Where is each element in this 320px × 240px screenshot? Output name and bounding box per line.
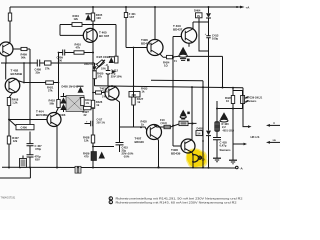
transistor T403b	[105, 86, 119, 100]
svg-text:1k: 1k	[141, 123, 144, 127]
node x30-y119.5	[29, 119, 31, 121]
wire T404 emitter	[56, 126, 58, 168]
column x116 with diode D403	[115, 25, 117, 57]
wire T406 collector	[154, 7, 156, 40]
svg-text:10: 10	[226, 99, 229, 103]
wire T407 emitter	[158, 139, 159, 168]
resistor R429 (dark)	[91, 152, 97, 161]
node y127-x141	[140, 126, 142, 128]
resistor R436	[179, 121, 188, 125]
node rail-x93	[92, 6, 94, 8]
column x133.5	[133, 48, 135, 128]
svg-text:27k: 27k	[45, 67, 50, 71]
svg-text:rt: rt	[273, 122, 275, 125]
svg-text:BC546B: BC546B	[11, 72, 23, 76]
wire H2 feedback line	[1, 62, 95, 64]
node x133.5-out	[133, 85, 135, 87]
resistor R409	[21, 47, 27, 50]
wire H3 line	[59, 52, 94, 54]
capacitor C407	[27, 144, 34, 146]
node out-x192	[191, 86, 193, 88]
thermal sensor 3	[180, 110, 187, 116]
node out-x233	[232, 87, 234, 89]
svg-text:1k: 1k	[137, 100, 140, 104]
node x217-y108.5	[216, 108, 218, 110]
collector line T407	[154, 123, 197, 127]
node x93-y146	[92, 146, 94, 148]
resistor R401	[8, 13, 11, 21]
node rail-end	[236, 6, 238, 8]
svg-text:R425 100kΩ: R425 100kΩ	[97, 56, 111, 59]
note 2	[109, 200, 112, 203]
node x93-y108	[92, 107, 94, 109]
resistor R410	[74, 51, 84, 54]
wire T403b base	[93, 92, 105, 94]
node out-x112	[111, 85, 113, 87]
diode D401	[86, 14, 92, 20]
diode D402	[94, 63, 96, 66]
wire T402 collector line y82.5	[18, 81, 59, 83]
note 1	[109, 197, 112, 200]
resistor R407	[7, 136, 10, 144]
transistor T408	[181, 139, 195, 153]
svg-text:27k: 27k	[48, 88, 53, 92]
resistor R418	[57, 100, 60, 108]
svg-text:Ruhestromeinstellung mit R143,: Ruhestromeinstellung mit R143, 60 mA bei…	[116, 200, 237, 204]
transistor T403	[181, 28, 196, 43]
thermal sensor 2	[220, 112, 228, 119]
wire D404 box lead	[199, 18, 209, 51]
node x9-y119.5	[8, 119, 10, 121]
node H2-x58.5	[58, 62, 60, 64]
column x217	[216, 101, 218, 122]
resistor R426a	[91, 100, 94, 108]
resistor R408	[7, 98, 10, 106]
wire left column	[9, 7, 11, 43]
diode D406 stack	[61, 93, 67, 112]
svg-text:470p: 470p	[35, 147, 41, 151]
bottom bus -A	[2, 166, 236, 169]
svg-text:470: 470	[84, 155, 89, 159]
diode D405 triangle	[78, 87, 84, 93]
highlighter mark (yellow)	[186, 148, 208, 168]
terminal -A	[236, 166, 239, 169]
speaker wire sw	[266, 141, 270, 144]
svg-text:100μ: 100μ	[212, 37, 218, 41]
diode D409 triangle	[99, 152, 106, 159]
node x173-y57.5	[172, 57, 174, 59]
capacitor C408	[37, 60, 39, 67]
capacitor C412	[106, 66, 110, 86]
node rail-x155	[154, 6, 156, 8]
wire T408 base	[173, 145, 181, 147]
wire T403b emitter	[116, 99, 120, 127]
svg-text:25V 1%: 25V 1%	[97, 122, 106, 125]
node H2-T401e	[5, 62, 7, 64]
node x233-y108.5	[232, 108, 234, 110]
svg-text:BC546B: BC546B	[36, 113, 48, 117]
node x192.5-y123.5	[192, 123, 194, 125]
resistor R421	[46, 81, 54, 84]
boxed label 230	[129, 92, 140, 98]
wire T402 base	[5, 63, 7, 80]
resistor R426b	[96, 91, 102, 94]
wire T408 collector	[191, 87, 193, 141]
column x173	[172, 37, 174, 147]
terminal +A arrow	[240, 6, 245, 9]
svg-text:100: 100	[58, 58, 63, 62]
svg-text:BD440: BD440	[135, 140, 145, 144]
svg-text:D406: D406	[59, 113, 66, 117]
svg-text:22: 22	[84, 113, 87, 117]
node x133.5-y47.5	[133, 47, 135, 49]
main output line	[95, 86, 244, 88]
wire base line T404	[9, 119, 47, 121]
fuse below bus	[75, 166, 81, 173]
svg-text:27k: 27k	[98, 75, 103, 79]
svg-text:Siemens: Siemens	[220, 148, 232, 152]
node bus dots	[8, 167, 10, 169]
svg-text:C406: C406	[21, 126, 28, 130]
svg-text:-10%: -10%	[123, 155, 130, 159]
svg-text:1k: 1k	[96, 103, 99, 107]
capacitor C418	[213, 132, 221, 159]
node H2-x30	[29, 62, 31, 64]
node out-x222.5	[222, 87, 224, 89]
svg-text:sw: sw	[273, 139, 276, 142]
fuse F401	[125, 7, 127, 48]
svg-text:1AT: 1AT	[129, 15, 134, 19]
boxed test label C406	[16, 125, 34, 130]
speaker out branch	[243, 88, 248, 127]
svg-text:2,2: 2,2	[222, 125, 226, 129]
svg-text:47k: 47k	[76, 46, 81, 50]
capacitor C407b	[27, 155, 34, 157]
svg-text:0,47μ: 0,47μ	[220, 144, 227, 148]
wire T401 emitter down	[5, 56, 7, 63]
component on bus	[20, 159, 27, 168]
resistor R427	[132, 97, 135, 105]
svg-text:BD437: BD437	[173, 28, 183, 32]
wire column x30	[29, 63, 31, 168]
resistor R437 + VDR	[232, 88, 234, 109]
wire x58.5 column	[56, 53, 59, 114]
svg-text:BD439: BD439	[141, 42, 151, 46]
resistor R404	[72, 23, 82, 27]
node rail-x126	[125, 6, 127, 8]
wire T403 emitter	[188, 43, 190, 47]
wire T403 base	[173, 36, 181, 38]
node H3-x93	[92, 52, 94, 54]
svg-text:1N: 1N	[197, 15, 200, 18]
speaker wire rt	[266, 124, 270, 127]
capacitor C417 (horizontal)	[85, 121, 94, 126]
ground 2	[229, 159, 237, 161]
transistor T405	[83, 28, 97, 42]
node x58.5-H3	[58, 52, 60, 54]
wire x60 to T405 base	[60, 25, 83, 36]
line y81	[151, 80, 203, 87]
speaker return branch	[233, 109, 244, 161]
node x58.5-coll	[58, 82, 60, 84]
svg-text:12k: 12k	[74, 17, 79, 21]
svg-text:22n: 22n	[36, 71, 41, 75]
wire y146 stub	[93, 146, 114, 148]
wire y108.5	[217, 108, 233, 110]
svg-text:12k: 12k	[84, 139, 89, 143]
resistor R427b	[84, 106, 92, 109]
node out-x203	[202, 86, 204, 88]
svg-text:BC 637: BC 637	[99, 34, 110, 38]
wire main column x93	[92, 7, 94, 168]
svg-text:D402 AA143: D402 AA143	[84, 63, 98, 66]
transistor T404	[47, 113, 61, 127]
svg-text:TN64GST191: TN64GST191	[1, 197, 16, 200]
svg-text:12k: 12k	[13, 139, 18, 143]
wire D404 to T403 collector	[193, 22, 209, 29]
resistor R405	[91, 13, 94, 21]
svg-text:BD439: BD439	[171, 152, 181, 156]
node x173-y125	[172, 124, 174, 126]
wire T402 emitter	[9, 93, 13, 168]
svg-text:D404: D404	[194, 9, 201, 13]
wire T406 base	[126, 47, 147, 49]
resistor R420	[93, 71, 96, 79]
transistor T406	[147, 40, 163, 56]
svg-text:25V-10%: 25V-10%	[111, 75, 123, 79]
capacitor C415	[116, 127, 124, 152]
wire T406 emitter + R424	[160, 54, 180, 58]
resistor R411	[45, 61, 52, 65]
svg-text:1k: 1k	[142, 90, 145, 94]
wire base line y24.5	[60, 24, 116, 26]
node x93-base	[92, 92, 94, 94]
svg-text:1N: 1N	[197, 133, 200, 136]
node H2-x24	[23, 62, 25, 64]
svg-text:HF-LS: HF-LS	[251, 135, 260, 139]
top supply rail +A	[10, 6, 240, 8]
resistor R428	[91, 135, 94, 143]
transistor T401	[0, 42, 13, 56]
bottom-left return loop	[0, 168, 30, 179]
node H2-x93	[92, 62, 94, 64]
svg-text:56k: 56k	[21, 56, 26, 60]
wire riser x24	[23, 63, 25, 83]
svg-text:D405 1N4148: D405 1N4148	[62, 85, 79, 89]
line y127	[120, 127, 148, 131]
capacitor C410	[206, 22, 210, 130]
resistor R430 (cylinder)	[215, 122, 220, 132]
connector (under highlight)	[192, 152, 193, 167]
column x203	[202, 87, 204, 167]
wire R420 to output line	[94, 79, 96, 86]
leader to boxed label	[9, 120, 16, 127]
svg-text:1,2k: 1,2k	[12, 101, 18, 105]
wire sensor to bootstrap column	[187, 56, 222, 87]
node x203-y141	[202, 140, 204, 142]
wire T401 to R409	[13, 49, 30, 63]
node rail-x207	[208, 6, 210, 8]
resistor R419	[81, 98, 85, 106]
transistor T402	[5, 78, 20, 93]
fuse F410	[164, 125, 170, 128]
transistor T407	[147, 125, 162, 140]
svg-text:Siemens: Siemens	[247, 100, 258, 103]
capacitor C409	[63, 50, 65, 56]
svg-text:100: 100	[96, 16, 101, 20]
svg-text:56k: 56k	[50, 102, 55, 106]
thermal sensor 1	[179, 47, 187, 54]
svg-text:63V: 63V	[35, 158, 40, 162]
svg-text:D405: D405	[197, 126, 204, 130]
node y24.5-x93	[92, 24, 94, 26]
trimmer R419 (gray block)	[66, 96, 84, 112]
svg-text:(1At): (1At)	[161, 121, 167, 125]
input arrow terminal	[112, 70, 116, 74]
ground 1	[213, 157, 221, 159]
